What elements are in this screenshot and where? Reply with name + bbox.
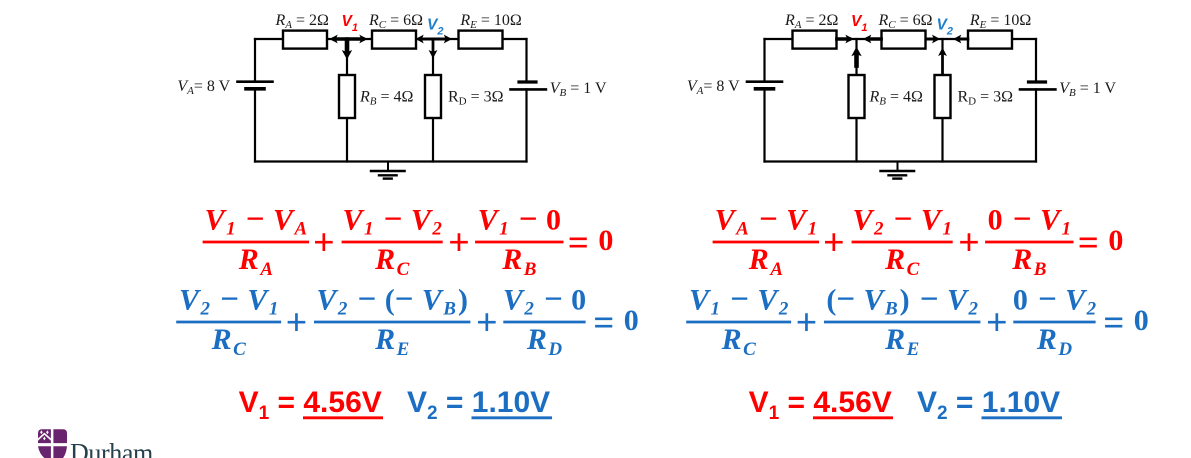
wire right above battery VB — [525, 39, 527, 82]
svg-text:RE: RE — [374, 323, 409, 360]
svg-text:RB = 4Ω: RB = 4Ω — [359, 89, 414, 108]
svg-text:V1 − V2: V1 − V2 — [343, 201, 443, 239]
wire left below battery VA — [254, 89, 256, 162]
underline answer V1 left — [303, 416, 383, 419]
svg-text:RC = 6Ω: RC = 6Ω — [878, 12, 933, 31]
wire right above battery VB (c2) — [1035, 39, 1037, 82]
svg-text:RD = 3Ω: RD = 3Ω — [958, 89, 1014, 108]
svg-text:+: + — [796, 302, 818, 344]
wire RB to bottom (c2) — [855, 118, 857, 162]
arrow into node 2 from right (c2) — [958, 38, 968, 41]
svg-text:+: + — [313, 222, 335, 264]
svg-text:+: + — [286, 302, 308, 344]
ground — [387, 162, 389, 171]
wire node1 to RB — [346, 39, 348, 75]
svg-text:Durham: Durham — [70, 439, 153, 458]
shield top-left pattern (chevron and lozenges) — [38, 433, 51, 441]
arrow into node 1 from left (c2) — [837, 37, 850, 40]
svg-text:V2 − V1: V2 − V1 — [179, 281, 278, 319]
svg-text:VB = 1 V: VB = 1 V — [550, 80, 607, 99]
KCL equation node 2 (right circuit, blue) — [686, 281, 1149, 360]
wire bottom (circuit 2) — [765, 160, 1037, 162]
underline answer V2 right — [982, 416, 1063, 419]
battery VB (c2) — [1029, 80, 1046, 83]
svg-text:RB = 4Ω: RB = 4Ω — [869, 89, 924, 108]
resistor RC — [372, 31, 416, 49]
svg-text:V2 − 0: V2 − 0 — [503, 281, 586, 319]
svg-text:RA = 2Ω: RA = 2Ω — [784, 12, 839, 31]
svg-text:0 − V1: 0 − V1 — [988, 201, 1071, 239]
resistor RC (c2) — [882, 31, 926, 49]
wire right below battery VB (c2) — [1035, 89, 1037, 161]
arrow down at node 1 (thick) — [345, 40, 350, 52]
svg-text:VA= 8 V: VA= 8 V — [687, 78, 740, 97]
wire bottom (circuit 1) — [255, 160, 527, 162]
logo shield top-left quadrant — [38, 429, 51, 443]
wire top (circuit 1) — [255, 38, 527, 40]
ground (c2) — [897, 162, 899, 171]
svg-text:V2 − (− VB): V2 − (− VB) — [316, 281, 468, 319]
svg-text:=0: =0 — [1078, 223, 1124, 264]
wire left above battery VA — [254, 39, 256, 82]
battery VB — [519, 80, 536, 83]
svg-text:RC: RC — [884, 243, 920, 280]
resistor RE (c2) — [968, 31, 1012, 49]
wire RD to bottom — [432, 118, 434, 162]
KCL equation node 1 (right circuit, red) — [713, 201, 1124, 279]
resistor RA — [283, 31, 327, 49]
svg-text:VA − V1: VA − V1 — [715, 201, 818, 239]
svg-text:+: + — [476, 302, 498, 344]
svg-text:(− VB) − V2: (− VB) − V2 — [826, 281, 978, 319]
svg-text:V1 − 0: V1 − 0 — [478, 201, 561, 239]
svg-text:V2: V2 — [427, 17, 443, 38]
arrow into node 2 from left (c2) — [926, 38, 936, 41]
logo shield top-right quadrant — [53, 429, 67, 443]
svg-text:0 − V2: 0 − V2 — [1013, 281, 1097, 319]
svg-text:V1 − V2: V1 − V2 — [689, 281, 789, 319]
svg-text:RA: RA — [238, 243, 273, 280]
logo shield bottom-left quadrant — [38, 446, 51, 458]
battery VA — [238, 80, 273, 83]
KCL equation node 1 (left circuit, red) — [203, 201, 614, 279]
battery VA (c2) — [747, 80, 782, 83]
resistor RD — [425, 75, 441, 118]
arrow into node 1 from right (c2) — [868, 37, 882, 40]
KCL equation node 2 (left circuit, blue) — [176, 281, 639, 360]
logo shield bottom-right quadrant — [53, 446, 67, 458]
svg-text:RA: RA — [748, 243, 783, 280]
svg-text:RE = 10Ω: RE = 10Ω — [969, 12, 1032, 31]
svg-text:RC: RC — [721, 323, 757, 360]
svg-text:VB = 1 V: VB = 1 V — [1059, 80, 1116, 99]
wire right below battery VB — [525, 89, 527, 161]
underline answer V2 left — [472, 416, 553, 419]
wire RB to bottom — [346, 118, 348, 162]
svg-text:RB: RB — [1011, 243, 1046, 280]
svg-text:RD: RD — [526, 323, 563, 360]
arrow left at node 1 — [334, 37, 347, 40]
svg-text:RA = 2Ω: RA = 2Ω — [275, 12, 330, 31]
svg-text:V2 − V1: V2 − V1 — [853, 201, 952, 239]
svg-text:RC: RC — [374, 243, 410, 280]
svg-text:RE: RE — [884, 323, 919, 360]
svg-text:RD: RD — [1036, 323, 1073, 360]
svg-text:V1: V1 — [342, 13, 358, 34]
resistor RD (c2) — [935, 75, 951, 118]
svg-text:RC = 6Ω: RC = 6Ω — [368, 12, 423, 31]
svg-text:RD = 3Ω: RD = 3Ω — [448, 89, 504, 108]
svg-text:RB: RB — [501, 243, 536, 280]
svg-text:+: + — [823, 222, 845, 264]
arrow right at node 1 — [347, 37, 363, 40]
resistor RB — [339, 75, 355, 118]
svg-text:VA= 8 V: VA= 8 V — [177, 78, 230, 97]
svg-text:=0: =0 — [568, 223, 614, 264]
wire RD to bottom (c2) — [941, 118, 943, 162]
svg-text:RE = 10Ω: RE = 10Ω — [459, 12, 522, 31]
svg-text:RC: RC — [211, 323, 247, 360]
svg-text:=0: =0 — [1103, 303, 1149, 344]
resistor RA (c2) — [793, 31, 837, 49]
wire left above battery VA (c2) — [763, 39, 765, 82]
resistor RE — [459, 31, 503, 49]
wire node2 to RD (c2) — [941, 39, 943, 75]
wire node2 to RD — [432, 39, 434, 75]
arrow left at node 2 — [420, 38, 433, 41]
svg-text:=0: =0 — [593, 303, 639, 344]
svg-text:V1 − VA: V1 − VA — [205, 201, 308, 239]
arrow up at node 1 (thick) (c2) — [854, 55, 859, 66]
wire top (circuit 2) — [765, 38, 1037, 40]
arrow down at node 2 — [432, 40, 435, 51]
svg-text:V1: V1 — [851, 13, 867, 34]
underline answer V1 right — [813, 416, 893, 419]
resistor RB (c2) — [849, 75, 865, 118]
wire left below battery VA (c2) — [763, 89, 765, 162]
svg-text:V2: V2 — [937, 17, 953, 38]
arrow right at node 2 — [433, 38, 448, 41]
arrow up at node 2 (c2) — [941, 56, 944, 73]
wire node1 to RB (c2) — [855, 39, 857, 75]
svg-text:+: + — [448, 222, 470, 264]
svg-text:+: + — [958, 222, 980, 264]
svg-text:+: + — [986, 302, 1008, 344]
